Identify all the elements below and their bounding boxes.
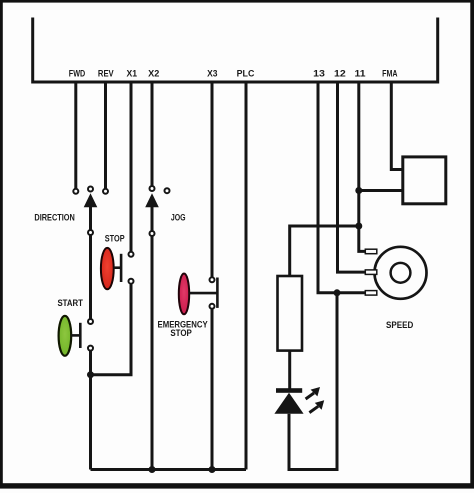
wire resistor to LED [288,351,291,389]
contact circle DIRECTION common [88,230,93,235]
switch DIRECTION arm shaft [89,205,92,233]
wire PLC [245,82,248,470]
wire X3 [211,82,214,280]
pushbutton START cap [59,316,72,356]
svg-text:X2: X2 [148,69,159,80]
wire FWD [74,82,77,191]
pushbutton EMERGENCY STOP cap [179,274,189,315]
wire STOP bottom to junction [91,281,132,375]
svg-text:DIRECTION: DIRECTION [34,213,75,224]
svg-text:X1: X1 [127,69,138,80]
LED D1 cathode bar [276,388,302,393]
svg-text:SPEED: SPEED [386,320,413,331]
LED light arrow upper [306,387,320,399]
border frame left [0,0,3,488]
wire LED to riser [289,293,337,470]
drive terminal strip U1 [31,18,439,83]
junction dot JOG bus [149,466,156,473]
svg-text:FWD: FWD [69,69,85,80]
contact circle STOP top [129,252,134,257]
wire X1 [130,82,133,254]
svg-text:12: 12 [334,69,346,80]
svg-text:FMA: FMA [382,69,398,80]
wire terminal 13 to pot low end [318,82,366,293]
contact circle REV [103,189,108,194]
svg-text:STOP: STOP [105,234,125,245]
contact circle ES top [210,277,215,282]
junction dot node 11 upper [355,187,362,194]
wire terminal 11 to pot high end [359,82,366,251]
wire EMERGENCY STOP bottom to bus [211,306,214,469]
LED D1 triangle [274,393,303,414]
junction dot node 11 lower [355,223,362,230]
wire DIRECTION common to START [89,233,92,322]
svg-text:PLC: PLC [237,69,255,80]
pushbutton START plunger bar [79,323,82,348]
svg-text:X3: X3 [207,69,217,80]
pushbutton STOP actuator [114,266,121,269]
junction dot X3 bus [209,466,216,473]
junction dot riser to pot low wire [334,289,341,296]
switch JOG arrow [145,193,159,207]
LED light arrow lower [309,400,324,412]
potentiometer terminal tab bottom [365,291,377,296]
wire terminal 12 to pot wiper [338,82,367,272]
border frame right [470,0,474,488]
contact circle ES bottom [210,304,215,309]
wire X2 [151,82,154,189]
border frame top [0,0,474,3]
contact circle JOG common [150,231,155,236]
contact circle STOP bottom [129,279,134,284]
svg-text:JOG: JOG [171,213,186,224]
svg-text:11: 11 [355,69,367,80]
contact circle START bottom [88,346,93,351]
bus common bottom left [91,468,247,471]
wire REV [104,82,107,191]
switch DIRECTION arrow [84,193,98,207]
potentiometer SPEED body [375,247,427,299]
border frame bottom [0,483,474,488]
meter box FMA [403,157,446,204]
contact circle START top [88,319,93,324]
pushbutton EMERGENCY STOP actuator [189,292,217,295]
junction dot START/STOP [87,371,94,378]
pushbutton STOP plunger bar [120,254,123,282]
contact circle JOG X2 [150,186,155,191]
wire FMA to meter [391,82,403,170]
potentiometer terminal tab middle [365,270,377,275]
switch JOG arm shaft [151,205,154,234]
wire START bottom to bus [89,348,92,469]
potentiometer SPEED shaft [391,263,411,283]
pushbutton EMERGENCY STOP plunger bar [216,278,219,308]
pushbutton STOP cap [101,248,114,289]
svg-text:STOP: STOP [170,328,192,339]
wire node11 to resistor top [290,226,359,276]
potentiometer terminal tab top [365,249,377,254]
svg-text:REV: REV [98,69,114,80]
contact circle DIRECTION pole [88,187,93,192]
svg-text:START: START [57,298,83,309]
wire JOG common to bus [151,234,154,470]
pushbutton START actuator [71,334,80,337]
wire node11 to meter [359,189,404,192]
contact circle JOG open [165,188,170,193]
resistor R1 [278,276,303,351]
contact circle FWD [73,189,78,194]
svg-text:13: 13 [313,69,325,80]
